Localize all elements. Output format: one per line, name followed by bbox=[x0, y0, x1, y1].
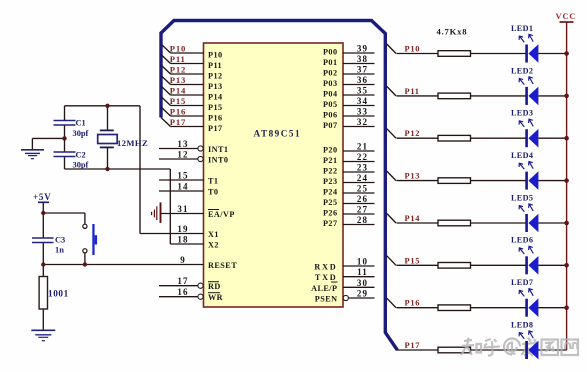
wire resistor to LED4 bbox=[471, 180, 527, 182]
wire bus entry P12 bbox=[161, 65, 171, 74]
wire X1 vertical bbox=[139, 106, 141, 234]
bus P1 (thick navy bus: left riser, top run, right riser) bbox=[161, 21, 397, 351]
junction +5V node bbox=[41, 211, 45, 215]
junction crystal bottom bbox=[105, 167, 109, 171]
wire LED4 to VCC bbox=[538, 180, 566, 182]
junction VCC row 5 bbox=[564, 221, 569, 226]
junction VCC row 7 bbox=[564, 305, 569, 310]
bubble INT1 bbox=[198, 146, 203, 151]
wire resistor to LED6 bbox=[471, 264, 527, 266]
overline WR bbox=[208, 292, 220, 294]
wire X2 pin18 bbox=[170, 243, 203, 245]
LED4 diode bbox=[527, 171, 539, 190]
wire bus entry P17 bbox=[161, 118, 171, 127]
overline EA bbox=[208, 209, 219, 211]
wire bus entry P13 bbox=[161, 76, 171, 85]
wire T0 pin14 bbox=[159, 190, 204, 192]
wire LED6 to VCC bbox=[538, 264, 566, 266]
wires P20-P27 right stubs bbox=[343, 151, 375, 225]
wire P13 left stub bbox=[171, 84, 204, 86]
resistor R7 4.7K bbox=[438, 305, 471, 311]
junction reset node left bbox=[41, 262, 45, 266]
wire P10 left stub bbox=[161, 44, 204, 127]
wires RXD TXD ALE PSEN right stubs bbox=[343, 266, 375, 298]
wire resistor to ground bbox=[42, 309, 44, 330]
wire LED1 to VCC bbox=[538, 53, 566, 55]
wire resistor to LED8 bbox=[471, 349, 527, 351]
chip pin names INT1 INT0 (inside chip left) bbox=[208, 145, 237, 302]
wire LED8 to VCC bbox=[538, 349, 566, 351]
wire P11 left stub bbox=[171, 63, 204, 65]
crystal Y1 12MHZ bbox=[100, 129, 114, 131]
junction C1-C2 ground bbox=[62, 136, 66, 140]
LED1 arrows bbox=[519, 34, 533, 42]
junction VCC row 3 bbox=[564, 136, 569, 141]
wire crystal stubs bbox=[107, 106, 109, 131]
LED8 redraw over watermark bbox=[525, 341, 528, 359]
watermark char zhi bbox=[461, 338, 474, 356]
resistor R1 1001 (vertical) bbox=[39, 277, 47, 310]
wire bottom X2 node bbox=[65, 168, 171, 170]
wire resistor to LED7 bbox=[471, 307, 527, 309]
wire bus entry P10 bbox=[161, 44, 171, 53]
LED7 diode bbox=[527, 298, 539, 317]
wire P12 to resistor bbox=[397, 137, 439, 139]
wire resistor to LED3 bbox=[471, 137, 527, 139]
junction VCC row 6 bbox=[564, 263, 569, 268]
wire P15 to resistor bbox=[397, 264, 439, 266]
pin number 13 bbox=[177, 139, 188, 297]
junction reset node button bbox=[83, 262, 87, 266]
pin numbers 21-28 bbox=[357, 142, 368, 226]
overline ALE/P bbox=[331, 281, 338, 283]
wire P13 to resistor bbox=[397, 180, 439, 182]
chip pin names P20-P27 (inside chip, right) bbox=[323, 146, 338, 229]
bubble WR bbox=[198, 294, 203, 299]
capacitor C1 plates bbox=[54, 121, 76, 157]
LED8 diode bbox=[527, 341, 539, 360]
wire bus entry P14 bbox=[161, 86, 171, 95]
watermark char hu bbox=[484, 339, 501, 356]
resistor R4 4.7K bbox=[438, 178, 471, 184]
wires P00-P07 right stubs with pin numbers 39-32 bbox=[343, 53, 375, 127]
wire INT1 pin13 bbox=[43, 149, 203, 297]
VCC rail vertical bbox=[566, 22, 568, 350]
wire LED5 to VCC bbox=[538, 222, 566, 224]
watermark char at bbox=[504, 339, 520, 355]
wire P17 left stub bbox=[171, 126, 204, 128]
wire +5V vertical / C3 bbox=[43, 202, 85, 329]
wire LED2 to VCC bbox=[538, 95, 566, 97]
chip U1 AT89C51 body bbox=[204, 43, 344, 307]
wire P15 left stub bbox=[171, 105, 204, 107]
wire bus exit P12 (right) bbox=[387, 129, 396, 139]
ground (reset) bbox=[31, 330, 55, 340]
wire EA/VP pin31 bbox=[162, 213, 204, 215]
wire resistor to LED5 bbox=[471, 222, 527, 224]
wire P11 to resistor bbox=[397, 95, 439, 97]
resistor R5 4.7K bbox=[438, 220, 471, 226]
LED7 arrows bbox=[519, 289, 533, 297]
wire LED3 to VCC bbox=[538, 137, 566, 139]
wire RD pin17 bbox=[159, 285, 198, 287]
resistor R3 4.7K bbox=[438, 135, 471, 141]
wire to button bbox=[43, 212, 85, 214]
LED6 arrows bbox=[519, 246, 533, 254]
wire P16 left stub bbox=[171, 115, 204, 117]
wire resistor to LED2 bbox=[471, 95, 527, 97]
pin numbers 10 11 30 29 bbox=[357, 257, 368, 299]
wire X2 vertical bbox=[169, 169, 171, 244]
watermark char fa bbox=[522, 338, 539, 357]
wire resistor to LED1 bbox=[471, 53, 527, 55]
wire T1 pin15 bbox=[159, 179, 204, 181]
LED3 diode bbox=[527, 129, 539, 148]
wire P14 left stub bbox=[171, 94, 204, 96]
wire bus entry P16 bbox=[161, 107, 171, 116]
junction VCC row 2 bbox=[564, 94, 569, 99]
overline RD bbox=[208, 281, 219, 283]
LED2 arrows bbox=[519, 77, 533, 85]
wire bus exit P10 (right) bbox=[387, 44, 396, 54]
watermark char tu bbox=[542, 340, 559, 356]
chip pin names RXD TXD ALE/P PSEN (inside chip, bottom right) bbox=[311, 263, 337, 304]
wire RESET pin9 bbox=[43, 264, 203, 266]
wire bus exit P13 (right) bbox=[387, 171, 396, 181]
wire bus entry P15 bbox=[161, 97, 171, 106]
wire WR pin16 bbox=[159, 296, 198, 298]
crystal circuit: top wire X1 node bbox=[32, 106, 170, 244]
wire P12 left stub bbox=[171, 73, 204, 75]
wire X1 pin19 bbox=[140, 233, 204, 235]
junction crystal top bbox=[105, 104, 109, 108]
LED8 arrows bbox=[519, 331, 533, 339]
wire ground branch bbox=[32, 137, 64, 139]
wire P16 to resistor bbox=[397, 307, 439, 309]
wire P14 to resistor bbox=[397, 222, 439, 224]
capacitor C2 plates bbox=[54, 151, 76, 153]
VCC rail bar bbox=[560, 21, 574, 23]
chip pin names P10-P17 (inside chip, left) bbox=[208, 51, 223, 134]
resistor R8 4.7K bbox=[438, 347, 471, 353]
wire INT0 pin12 bbox=[159, 158, 198, 160]
pushbutton S1 actuator bbox=[92, 224, 94, 255]
wire bus entry P11 bbox=[161, 55, 171, 64]
chip pin names P00-P07 (inside chip, right) bbox=[323, 48, 338, 131]
LED1 diode bbox=[527, 44, 539, 63]
resistor R1 4.7K bbox=[438, 51, 471, 57]
wire bus exit P16 (right) bbox=[387, 298, 396, 308]
watermark char wang bbox=[562, 340, 579, 356]
power symbol (rotated bars) at EA/VP bbox=[152, 202, 161, 223]
bubble RD bbox=[198, 283, 203, 288]
junction VCC row 4 bbox=[564, 178, 569, 183]
wire bus exit P15 (right) bbox=[387, 256, 396, 265]
pushbutton S1 terminals bbox=[83, 224, 87, 228]
bubble PSEN bbox=[343, 295, 348, 300]
ground (crystal) bbox=[21, 150, 44, 159]
wire bus exit P11 (right) bbox=[387, 86, 396, 96]
LED2 diode bbox=[527, 87, 539, 106]
resistor R2 4.7K bbox=[438, 93, 471, 99]
LED3 arrows bbox=[519, 119, 533, 127]
junction VCC row 1 bbox=[564, 51, 569, 56]
wire left vertical C1-C2 bbox=[64, 106, 66, 121]
LED5 diode bbox=[527, 214, 539, 233]
LED6 diode bbox=[527, 256, 539, 275]
bubble INT0 bbox=[198, 156, 203, 161]
LED5 arrows bbox=[519, 204, 533, 212]
capacitor C3 plates bbox=[32, 238, 54, 243]
wire LED7 to VCC bbox=[538, 307, 566, 309]
resistor R6 4.7K bbox=[438, 263, 471, 269]
wire P17 to resistor bbox=[397, 349, 439, 351]
LED4 arrows bbox=[519, 162, 533, 170]
wire P10 to resistor bbox=[397, 53, 439, 55]
pin number 39 bbox=[357, 44, 368, 128]
wire bus exit P14 (right) bbox=[387, 214, 396, 224]
